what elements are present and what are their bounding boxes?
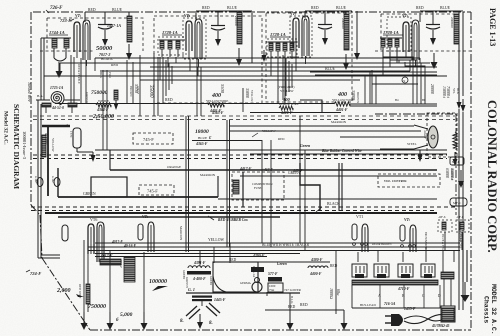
svg-text:20000: 20000 (234, 16, 239, 26)
tube VT5 (1st AF) (138, 222, 154, 252)
svg-text:BROWN: BROWN (129, 86, 132, 96)
svg-text:VT1: VT1 (356, 214, 363, 219)
bus bundle y150 (95, 143, 447, 154)
svg-text:35000: 35000 (351, 90, 356, 100)
svg-text:9: 9 (404, 79, 406, 83)
svg-text:RED: RED (416, 6, 424, 10)
wire right pair lower (459, 109, 463, 310)
ground arrows bottom mid (287, 293, 348, 330)
coil slab bottom left (86, 284, 90, 304)
zigzag resistor right (453, 132, 458, 166)
svg-text:GREEN: GREEN (209, 276, 212, 285)
antenna coil 1744-1A label (49, 30, 68, 35)
label 35000 big vert (148, 85, 153, 98)
ground arrows right pair (457, 96, 466, 112)
svg-text:4-400-F: 4-400-F (192, 277, 206, 281)
label 5500 vert b (220, 84, 225, 94)
svg-text:4-162: 4-162 (34, 176, 37, 183)
tube VT3 (2nd det) (293, 16, 309, 64)
stage3 shield box dashed (266, 13, 352, 102)
motor box (91, 177, 127, 197)
tone cap G (188, 287, 226, 306)
svg-text:BLUE: BLUE (336, 6, 347, 10)
label Twisted Wire (left border) (27, 82, 31, 102)
svg-text:750000: 750000 (91, 90, 108, 96)
output transformer box (182, 258, 300, 293)
wire stage4 plate bus (420, 11, 455, 22)
if coil 1728-1A label st3 (270, 32, 290, 37)
svg-text:COLONIAL RADIO CORP.: COLONIAL RADIO CORP. (485, 100, 499, 253)
tube VT4 label (402, 13, 409, 18)
transformer winding strip (352, 280, 438, 285)
bus bottom y308 (265, 305, 455, 310)
tube VT2 label (184, 13, 191, 18)
tube VT6 (output) (62, 222, 104, 262)
svg-text:BLUE & YEL: BLUE & YEL (441, 234, 444, 251)
labels 4017-F row (111, 240, 137, 248)
label RED st2 (202, 6, 210, 10)
connector assembly 4417-F (232, 167, 303, 207)
if coil box st3 (267, 39, 297, 57)
svg-text:BLUE: BLUE (440, 6, 451, 10)
ground arrow bottom right (461, 250, 470, 302)
svg-text:MAROON: MAROON (179, 226, 183, 241)
svg-text:4401-F: 4401-F (335, 108, 348, 112)
label BLUE st3 (336, 6, 347, 10)
svg-text:4417-F: 4417-F (239, 167, 252, 171)
label 45-780 (431, 324, 450, 328)
label 726-F bottom (26, 270, 41, 276)
svg-text:MF-C: MF-C (453, 201, 462, 205)
svg-text:1770: 1770 (69, 131, 73, 138)
label GREEN vert mid (85, 92, 89, 103)
svg-text:MAROON: MAROON (458, 228, 462, 242)
MF-C box (450, 198, 467, 206)
svg-text:4400-F: 4400-F (309, 272, 322, 276)
bus yellow y243 (95, 238, 460, 243)
label 1000-60 vert (329, 288, 340, 299)
svg-text:GREEN: GREEN (85, 92, 89, 103)
svg-text:BLUE: BLUE (198, 136, 207, 140)
tone caps diagonal (180, 303, 220, 329)
svg-text:PUR: PUR (108, 72, 112, 78)
resistor 400 yellow (332, 92, 354, 112)
label 6 (116, 318, 119, 323)
tube VT3 shield dashed (290, 16, 312, 57)
banner Chassis (483, 296, 490, 323)
ground arrows bottom left (81, 312, 148, 330)
chassis border bottom (dash-dot) (90, 329, 471, 331)
wire stage3 plate bus (305, 11, 352, 18)
osc tube shield dashed (387, 17, 411, 51)
bus bundle y247-252 (88, 243, 460, 251)
svg-text:B.A.: B.A. (37, 94, 44, 98)
capacitor C1 bypass (98, 12, 112, 46)
wire antenna twisted pair (41, 38, 50, 100)
tone dashed box right (378, 174, 440, 187)
wire right pair down (455, 11, 463, 96)
svg-text:4017-F: 4017-F (100, 254, 113, 258)
svg-text:50000: 50000 (96, 45, 113, 52)
svg-text:723-F.: 723-F. (60, 18, 72, 23)
bus drops (44, 56, 420, 80)
svg-text:-OF-6: -OF-6 (456, 215, 464, 219)
svg-text:Blue Rubber Covered Wire: Blue Rubber Covered Wire (321, 149, 362, 153)
svg-text:45/780Ω-45: 45/780Ω-45 (431, 324, 450, 328)
svg-text:YELLOW: YELLOW (208, 238, 224, 242)
insulator ovals left (34, 176, 60, 187)
resistor 40000 slab (42, 135, 46, 157)
svg-text:VT:: VT: (402, 13, 409, 18)
svg-text:BLUE: BLUE (325, 67, 336, 71)
arrow st2 drop (262, 50, 267, 62)
svg-text:A: A (378, 294, 381, 298)
wire y140 segment (192, 129, 285, 141)
svg-text:(PRIMARY): (PRIMARY) (278, 85, 294, 89)
right cap drops (443, 250, 454, 272)
tube VT4 (osc) (403, 20, 419, 66)
speaker wires (229, 126, 428, 162)
svg-text:5500: 5500 (134, 84, 139, 94)
wire stage2 plate bus (196, 11, 252, 21)
bus green y176 (240, 171, 437, 176)
svg-text:4-162: 4-162 (51, 176, 54, 183)
svg-text:Green: Green (277, 262, 287, 266)
svg-text:Chassis: Chassis (483, 296, 490, 323)
wire red-purple pair (71, 55, 80, 104)
vert label red wire (78, 284, 82, 299)
label maroon vert (179, 226, 183, 241)
chassis border left step (31, 205, 42, 258)
svg-text:4380-F: 4380-F (310, 258, 323, 262)
resistor 4017-F (100, 254, 121, 265)
ground arrows right mid (458, 170, 464, 188)
if coil box st2 (158, 37, 186, 55)
745-F dashed box lower (139, 185, 174, 195)
svg-text:VT6: VT6 (90, 217, 97, 222)
svg-text:GERMA: GERMA (240, 281, 252, 285)
svg-text:BLACK: BLACK (327, 202, 340, 206)
power cord 1435-F (404, 307, 455, 324)
svg-text:1447-1A: 1447-1A (107, 23, 121, 28)
osc coil windings st4 (380, 38, 402, 58)
svg-text:MAROON: MAROON (200, 173, 216, 177)
wire st3 right drop (354, 11, 360, 60)
label YELLOW vert (51, 138, 55, 151)
fuse box right (441, 272, 455, 322)
label 750000 (91, 90, 108, 96)
svg-text:VT:: VT: (404, 217, 411, 222)
svg-text:BROWN: BROWN (356, 92, 360, 104)
svg-text:VT:: VT: (184, 13, 191, 18)
svg-text:35000±: 35000± (450, 168, 455, 181)
wire st2 tube legs down (197, 59, 201, 116)
long verticals middle (186, 116, 305, 252)
svg-text:20000: 20000 (430, 84, 435, 94)
label RED st1b (111, 63, 118, 67)
label BLUE st2 (227, 6, 238, 10)
bus y199 right (218, 198, 437, 200)
bus B+ y103 (55, 98, 334, 104)
svg-text:YEL: YEL (452, 88, 456, 94)
stage2 shield box dashed (154, 16, 262, 103)
label BLUE st4 (440, 6, 451, 10)
staircase corners st2 (163, 57, 172, 104)
trimmer caps 44-51 (42, 103, 77, 113)
label 35000 vert (351, 90, 360, 104)
svg-text:4391-F: 4391-F (193, 261, 206, 265)
svg-text:G. 1: G. 1 (188, 287, 195, 292)
shield partition dashed pair mid (33, 155, 447, 159)
svg-text:VOL. CONTROL: VOL. CONTROL (384, 179, 407, 183)
small res arrow (114, 90, 119, 110)
svg-text:YELLOW: YELLOW (51, 138, 55, 151)
label 18000 blue (195, 129, 212, 146)
svg-text:RED: RED (111, 63, 118, 67)
tube VT5 label (142, 214, 149, 219)
svg-text:716-5A: 716-5A (384, 302, 396, 306)
svg-text:2,000: 2,000 (56, 288, 71, 294)
label B.A. (37, 94, 44, 98)
svg-text:RED & PURPLE: RED & PURPLE (77, 64, 80, 84)
wire st2 right drop (251, 11, 253, 63)
label BLACK st1 (101, 57, 113, 61)
antenna coil 1744-1A (50, 38, 71, 61)
svg-text:RED: RED (165, 98, 173, 102)
svg-text:200000: 200000 (341, 18, 345, 29)
resistor 20000 slab st2 (236, 11, 242, 66)
svg-text:YELLOW: YELLOW (262, 129, 275, 133)
svg-text:B6: B6 (422, 98, 426, 102)
resistor 4391-F (187, 261, 211, 281)
osc coil 1728-1A label st4 (383, 30, 403, 35)
svg-text:B4: B4 (395, 98, 399, 102)
heavy line y170 maroon (110, 150, 437, 177)
label yellow primary (278, 85, 294, 93)
svg-text:GREEN: GREEN (182, 270, 185, 279)
svg-text:44-51-0: 44-51-0 (51, 106, 64, 110)
svg-text:449-F: 449-F (292, 169, 303, 173)
label 5500 vert a (134, 84, 139, 94)
resistor 4390-F (213, 254, 330, 272)
svg-text:1728-1A: 1728-1A (270, 32, 286, 37)
svg-text:Model 32 A.C.: Model 32 A.C. (3, 111, 9, 145)
label RED st3 (311, 6, 319, 10)
svg-text:GREEN: GREEN (83, 192, 96, 196)
label 20000 vert st2 (234, 16, 239, 26)
svg-text:BROWN&RED: BROWN&RED (424, 232, 427, 249)
svg-text:FUSE: FUSE (254, 186, 262, 190)
phono jack 1770-1A (66, 122, 96, 162)
tube VT1 (rect) (352, 224, 368, 252)
banner MODEL 32 A.C. (490, 284, 497, 335)
svg-text:726-F: 726-F (50, 6, 63, 11)
svg-text:4710-F: 4710-F (397, 287, 410, 291)
banner COLONIAL RADIO CORP. (485, 100, 499, 253)
svg-text:4365-F: 4365-F (195, 142, 208, 146)
inner dash-dot partition right (375, 114, 456, 215)
svg-text:Twisted Wire: Twisted Wire (27, 82, 31, 102)
pilot lamp (252, 278, 262, 293)
stage1 shield box dashed (40, 18, 143, 51)
chassis border left (dash-dot) (30, 12, 32, 205)
svg-text:RED: RED (202, 6, 210, 10)
label 50000 st1 (96, 45, 113, 52)
volume control spiral 1725-1A (50, 86, 64, 105)
transformer taps (352, 285, 441, 308)
tube VT1 label (75, 13, 82, 18)
svg-text:100000: 100000 (149, 279, 167, 285)
svg-text:BUS-LEAD: BUS-LEAD (360, 303, 376, 307)
vert label green bot (185, 277, 189, 288)
resistor 200000 slab st3 (343, 11, 349, 70)
banner Model 32 A.C. (3, 111, 9, 145)
label 726-F (46, 6, 63, 13)
capacitor bypass st3 (318, 11, 332, 45)
label 2000 (56, 288, 84, 297)
bus B+ y104 right (350, 104, 437, 106)
svg-text:B.L.K.: B.L.K. (290, 296, 294, 305)
ground arrow below ant coil (56, 62, 63, 78)
heavy z bend (300, 163, 320, 210)
tube VT2 shield dashed (183, 18, 206, 59)
label 100 black (279, 97, 299, 115)
svg-text:60ω: 60ω (336, 289, 340, 296)
label RED st1 (88, 8, 96, 12)
banner PAGE 1-13 (488, 8, 497, 46)
banner 100001-Issue-3 (22, 131, 27, 160)
svg-text:1728-1A: 1728-1A (162, 30, 178, 35)
svg-text:BLK: BLK (456, 88, 460, 95)
tube pin circles (353, 243, 416, 248)
st3 coil long drops (278, 63, 370, 104)
bus wires y58-80 (44, 58, 447, 80)
tube socket 4 (421, 264, 435, 278)
label RED bot (300, 303, 308, 307)
tube socket 2 (374, 264, 389, 278)
svg-text:577-F: 577-F (268, 272, 278, 276)
svg-text:750000: 750000 (88, 304, 106, 310)
right slab maroon (458, 228, 462, 242)
svg-text:8.: 8. (209, 321, 213, 326)
svg-text:RED: RED (288, 305, 296, 309)
misc bottom verticals (200, 243, 426, 314)
svg-text:75Ω: 75Ω (269, 288, 275, 292)
svg-text:35000: 35000 (148, 85, 153, 98)
label MAROON mid (331, 120, 347, 124)
svg-text:1728-1A: 1728-1A (383, 30, 399, 35)
tube socket 3 (398, 264, 413, 278)
svg-text:4390-F: 4390-F (252, 254, 265, 258)
svg-text:MODEL 32 A.C.: MODEL 32 A.C. (490, 284, 497, 335)
resistor 20000 slab st1 (126, 12, 132, 60)
svg-text:RED: RED (311, 6, 319, 10)
label 200000 vert st3 (341, 18, 345, 29)
svg-text:BLK: BLK (99, 72, 103, 79)
svg-text:RED: RED (278, 137, 285, 141)
wire purple pair down (86, 60, 112, 150)
label 7017-2 (99, 52, 110, 57)
label 716-5A (360, 302, 396, 307)
svg-text:ORANGE: ORANGE (167, 165, 181, 169)
svg-text:747 LOWER: 747 LOWER (284, 288, 302, 292)
if coil 1728-1A label st2 (162, 30, 182, 35)
tube VT1 (1st RF) (74, 20, 90, 66)
bus y112 segment (250, 100, 341, 113)
svg-text:100001-Issue-3: 100001-Issue-3 (22, 131, 27, 160)
svg-text:8.: 8. (180, 319, 184, 324)
svg-text:SCHEMATIC DIAGRAM: SCHEMATIC DIAGRAM (12, 104, 21, 189)
stage4 shield box dashed (375, 14, 470, 51)
svg-text:745-F: 745-F (143, 137, 154, 142)
svg-text:BLUE WITH WHITE TRACER: BLUE WITH WHITE TRACER (262, 243, 310, 247)
chassis border diagonal corner (dash-dot) (42, 258, 90, 330)
vert label BLK (290, 296, 294, 305)
svg-text:BLUE: BLUE (227, 6, 238, 10)
MF-E box upper (450, 157, 464, 165)
svg-text:15000±: 15000± (442, 86, 447, 99)
label 35000 vert lower right (450, 168, 455, 181)
svg-text:RED WIRE: RED WIRE (78, 284, 82, 299)
shield partition dashed pair upper (33, 116, 455, 120)
resistor white 4364-F (96, 99, 111, 112)
svg-text:D: D (438, 294, 441, 298)
svg-text:Green: Green (300, 143, 311, 148)
label GREEN mid (83, 192, 96, 196)
svg-text:RED: RED (330, 264, 338, 268)
osc nested wires (372, 47, 426, 104)
svg-text:724-F: 724-F (30, 271, 41, 276)
svg-text:BLUE: BLUE (112, 8, 123, 12)
chassis border right (dash-dot) (470, 12, 472, 330)
svg-text:RED RUBBER Cov.: RED RUBBER Cov. (218, 218, 248, 222)
tube VT6 label bot (90, 217, 97, 222)
wire stage1 plate top bus (85, 12, 135, 22)
svg-text:200000: 200000 (450, 17, 454, 28)
bus bundle extra lines (95, 254, 300, 257)
capacitor 1447-1A label (107, 23, 121, 28)
wire volume drops (84, 240, 144, 312)
svg-text:35000: 35000 (245, 88, 250, 98)
staircase corners st3 (283, 55, 292, 100)
chassis border top (dash-dot) (33, 11, 471, 13)
label 75000 vert right (446, 86, 460, 99)
label 4365-F partition (211, 111, 224, 115)
svg-text:RED: RED (300, 303, 308, 307)
label 100000 (149, 279, 168, 291)
vert labels tube wires (372, 232, 427, 249)
tube VT3 label (290, 11, 297, 16)
745-F dashed box upper (133, 133, 173, 144)
banner SCHEMATIC DIAGRAM (12, 104, 21, 189)
label 35000 yellow vert (243, 88, 253, 112)
label RED st4 (416, 6, 424, 10)
if coil windings st3 (268, 42, 296, 59)
chassis deck dashed pair (31, 207, 455, 211)
svg-text:2,50,000: 2,50,000 (92, 114, 114, 120)
wire misc verticals left (81, 53, 158, 116)
wire into spiral (36, 99, 80, 101)
svg-text:VT:: VT: (142, 214, 149, 219)
label BLUE bus (310, 67, 437, 75)
svg-text:1744-1A: 1744-1A (49, 30, 65, 35)
svg-text:RED: RED (88, 8, 96, 12)
svg-text:65000: 65000 (445, 168, 450, 178)
svg-text:4162-F: 4162-F (423, 130, 427, 139)
tube socket 1 (352, 264, 367, 278)
if coil windings st2 (159, 40, 185, 57)
wire left pair down (38, 100, 60, 258)
